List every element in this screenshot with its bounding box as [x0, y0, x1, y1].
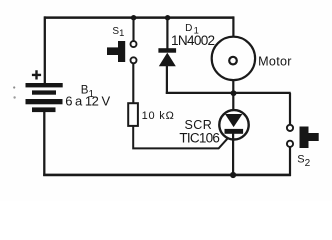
diode D1 [158, 48, 176, 66]
svg-text:Motor: Motor [258, 54, 292, 68]
wire middle rail (anode net) [166, 92, 291, 94]
svg-text:10 kΩ: 10 kΩ [142, 110, 175, 122]
svg-text:1N4002: 1N4002 [171, 33, 215, 48]
wire D1 lower lead [166, 65, 168, 94]
svg-text:6 a 12 V: 6 a 12 V [65, 93, 110, 108]
wire S2 lower lead [289, 147, 291, 176]
svg-text:S1: S1 [112, 26, 124, 38]
scan speck upper [13, 86, 15, 88]
resistor R1 10k body [128, 103, 138, 126]
switch S2 contact circles [287, 125, 293, 147]
wire bottom rail [43, 174, 291, 177]
SCR U1 triangle [225, 114, 242, 127]
wire S1 upper lead [132, 18, 134, 42]
node junction dot SCR cathode to bottom rail [230, 172, 236, 178]
node junction dot motor bottom [231, 90, 237, 96]
scan speck lower [13, 96, 15, 98]
wire battery negative lead down [43, 112, 45, 176]
node junction dot D1 top [165, 15, 170, 20]
switch S1 contact circles [131, 41, 137, 63]
svg-text:TIC106: TIC106 [179, 130, 219, 145]
wire resistor lower lead / gate wire [133, 127, 227, 149]
wire D1 upper lead [166, 18, 168, 49]
switch S1 plunger [107, 41, 125, 62]
motor M1 shaft circle [229, 57, 237, 65]
wire top rail [44, 16, 234, 19]
motor M1 body [212, 37, 255, 80]
wire right vertical to S2 [289, 93, 291, 125]
node junction dot S1 top [131, 15, 136, 20]
wire motor bottom lead / SCR anode lead [232, 81, 234, 111]
wire motor top lead from rail corner [232, 16, 234, 37]
battery B1 [26, 83, 63, 112]
wire left vertical (battery + lead) [44, 16, 46, 83]
SCR U1 body circle [219, 110, 248, 139]
SCR U1 cathode bar [225, 129, 244, 134]
switch S2 plunger [300, 127, 319, 149]
wire SCR cathode lead [232, 133, 234, 176]
wire S1 lower lead to resistor [132, 63, 134, 103]
battery plus sign [32, 70, 41, 79]
